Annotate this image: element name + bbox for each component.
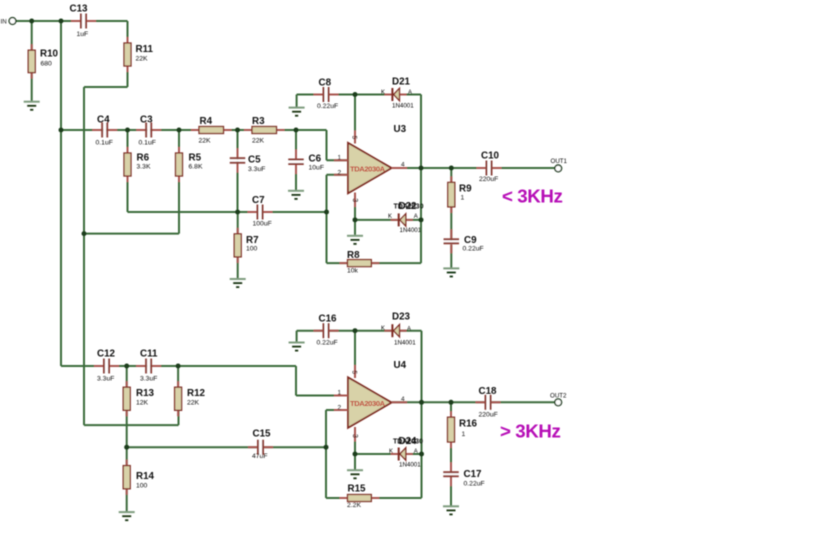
- svg-text:22K: 22K: [136, 56, 149, 63]
- svg-text:A: A: [407, 327, 411, 333]
- svg-text:IN: IN: [1, 19, 7, 26]
- svg-text:3: 3: [351, 434, 358, 438]
- svg-text:100: 100: [136, 483, 148, 490]
- svg-text:220uF: 220uF: [479, 412, 498, 419]
- svg-text:3.3uF: 3.3uF: [140, 376, 157, 383]
- svg-text:1: 1: [462, 431, 466, 438]
- svg-text:C12: C12: [97, 349, 116, 360]
- svg-text:0.22uF: 0.22uF: [463, 246, 484, 253]
- svg-text:R7: R7: [246, 235, 259, 246]
- svg-text:C11: C11: [140, 349, 158, 360]
- svg-text:K: K: [381, 326, 385, 332]
- svg-text:1N4001: 1N4001: [400, 227, 422, 234]
- svg-text:220uF: 220uF: [479, 176, 498, 183]
- svg-text:C9: C9: [464, 235, 477, 246]
- svg-text:R14: R14: [136, 471, 155, 482]
- svg-text:A: A: [408, 90, 412, 96]
- svg-text:22K: 22K: [187, 400, 200, 407]
- svg-text:1: 1: [461, 195, 465, 202]
- svg-text:5: 5: [350, 136, 357, 140]
- svg-text:TDA2030A: TDA2030A: [350, 165, 386, 174]
- svg-text:0.1uF: 0.1uF: [96, 140, 113, 147]
- svg-text:2: 2: [338, 170, 342, 177]
- svg-text:R11: R11: [136, 44, 154, 55]
- svg-text:22K: 22K: [199, 138, 212, 145]
- svg-text:C6: C6: [309, 154, 322, 165]
- svg-text:TDA2030A: TDA2030A: [350, 399, 386, 408]
- svg-text:R13: R13: [136, 388, 155, 399]
- svg-text:C7: C7: [252, 195, 265, 206]
- svg-text:680: 680: [41, 61, 53, 68]
- svg-text:OUT2: OUT2: [550, 393, 567, 400]
- svg-text:U4: U4: [394, 360, 407, 371]
- svg-text:D21: D21: [392, 77, 411, 88]
- svg-text:100: 100: [246, 246, 258, 253]
- svg-text:R16: R16: [459, 419, 478, 430]
- svg-text:R3: R3: [252, 116, 265, 127]
- svg-text:5: 5: [350, 370, 357, 374]
- svg-text:3.3uF: 3.3uF: [97, 376, 114, 383]
- svg-text:C10: C10: [481, 151, 500, 162]
- svg-text:47uF: 47uF: [252, 453, 268, 460]
- svg-text:1: 1: [338, 390, 342, 397]
- svg-text:10k: 10k: [347, 268, 359, 275]
- svg-text:R9: R9: [459, 184, 472, 195]
- svg-text:> 3KHz: > 3KHz: [500, 421, 560, 442]
- svg-text:1N4001: 1N4001: [394, 340, 416, 347]
- svg-text:D22: D22: [399, 201, 418, 212]
- svg-text:3.3K: 3.3K: [137, 164, 151, 171]
- svg-text:OUT1: OUT1: [551, 158, 568, 165]
- svg-text:0.1uF: 0.1uF: [139, 140, 156, 147]
- svg-text:R4: R4: [200, 116, 213, 127]
- svg-text:3: 3: [351, 198, 358, 202]
- svg-text:C3: C3: [140, 115, 153, 126]
- svg-text:R12: R12: [187, 388, 206, 399]
- svg-text:C16: C16: [319, 314, 338, 325]
- svg-text:C13: C13: [70, 4, 89, 15]
- svg-text:1N4001: 1N4001: [392, 103, 414, 110]
- svg-text:0.22uF: 0.22uF: [317, 103, 338, 110]
- svg-text:0.22uF: 0.22uF: [464, 481, 485, 488]
- svg-text:100uF: 100uF: [253, 221, 272, 228]
- svg-text:R10: R10: [40, 49, 59, 60]
- svg-text:2.2K: 2.2K: [347, 502, 361, 509]
- svg-text:12K: 12K: [136, 400, 149, 407]
- svg-text:C8: C8: [319, 78, 332, 89]
- svg-text:K: K: [388, 214, 392, 220]
- svg-text:10uF: 10uF: [309, 165, 325, 172]
- svg-text:2: 2: [338, 405, 342, 412]
- svg-text:C17: C17: [464, 469, 483, 480]
- svg-text:C15: C15: [253, 429, 272, 440]
- svg-text:R15: R15: [348, 484, 367, 495]
- svg-text:A: A: [414, 214, 418, 220]
- svg-text:1uF: 1uF: [77, 31, 89, 38]
- svg-text:1: 1: [338, 155, 342, 162]
- svg-text:R6: R6: [137, 153, 150, 164]
- svg-text:R8: R8: [347, 250, 360, 261]
- svg-text:K: K: [381, 90, 385, 96]
- svg-text:C5: C5: [248, 155, 261, 166]
- svg-text:4: 4: [401, 396, 405, 403]
- svg-text:A: A: [414, 449, 418, 455]
- svg-text:0.22uF: 0.22uF: [317, 340, 338, 347]
- svg-text:1N4001: 1N4001: [399, 462, 421, 469]
- svg-text:R5: R5: [189, 153, 202, 164]
- svg-text:D24: D24: [399, 436, 418, 447]
- svg-text:U3: U3: [394, 124, 407, 135]
- svg-text:4: 4: [401, 162, 405, 169]
- svg-text:K: K: [389, 449, 393, 455]
- svg-text:6.8K: 6.8K: [189, 164, 203, 171]
- svg-text:< 3KHz: < 3KHz: [502, 186, 562, 207]
- svg-text:D23: D23: [392, 312, 411, 323]
- svg-text:22K: 22K: [252, 138, 265, 145]
- svg-text:C4: C4: [97, 115, 110, 126]
- svg-text:C18: C18: [479, 386, 498, 397]
- svg-text:3.3uF: 3.3uF: [248, 166, 265, 173]
